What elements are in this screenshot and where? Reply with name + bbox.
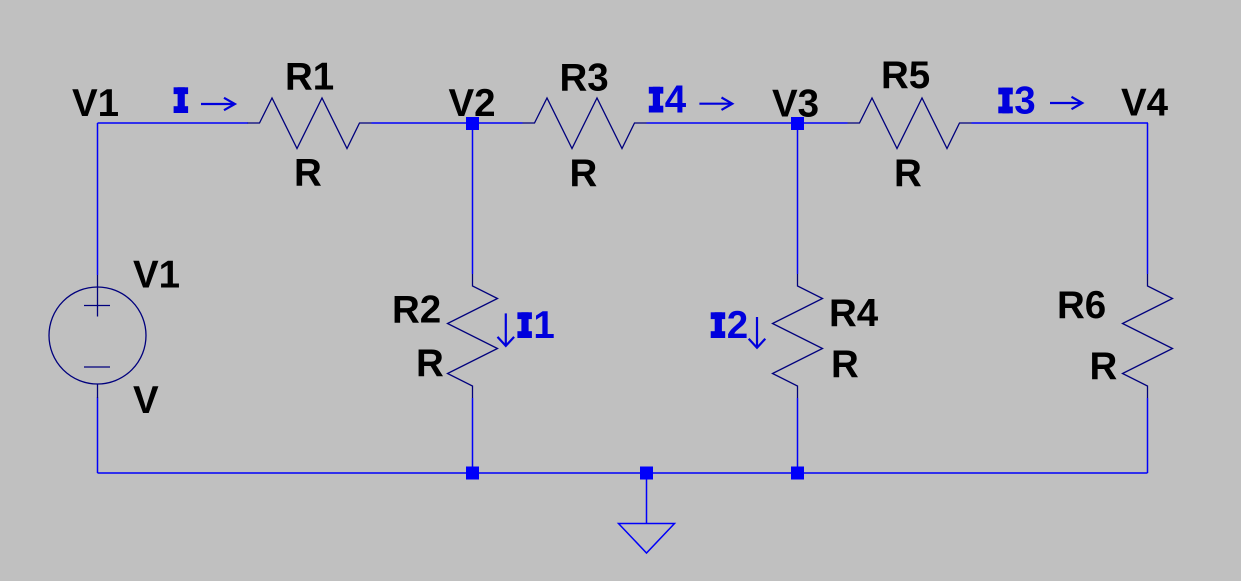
current label I4 with right arrow (649, 87, 664, 113)
wire left rail upper: V1 node down to source (97, 123, 99, 275)
svg-text:V: V (133, 379, 159, 422)
current label I1 with down arrow (498, 313, 515, 346)
resistor R5 (848, 98, 972, 149)
svg-text:R4: R4 (829, 292, 879, 335)
svg-text:R: R (894, 152, 922, 195)
wire V3 column lower: R4 to bottom rail (797, 398, 799, 473)
svg-text:V3: V3 (772, 82, 819, 125)
svg-text:R2: R2 (392, 289, 441, 332)
resistor R4 (773, 274, 823, 398)
svg-text:V1: V1 (133, 254, 180, 297)
wire right rail lower: R6 to bottom rail (1147, 398, 1149, 473)
svg-text:3: 3 (1014, 79, 1035, 122)
wire top rail: R3 to R5 through node V3 (647, 122, 848, 124)
resistor R1 (248, 98, 372, 149)
junction square bottom below R2 (466, 467, 479, 480)
current label I with right arrow (174, 87, 189, 113)
wire left rail lower: source to bottom rail (97, 398, 99, 474)
svg-text:2: 2 (727, 304, 748, 347)
svg-text:R6: R6 (1057, 284, 1106, 327)
junction square bottom below R4 (791, 467, 804, 480)
current label I3 with right arrow (998, 88, 1013, 114)
svg-text:R5: R5 (881, 54, 930, 97)
svg-text:R: R (831, 343, 859, 386)
ground (619, 480, 675, 554)
voltage source V1 (49, 275, 146, 398)
wire V2 column upper: node V2 to R2 (472, 123, 474, 274)
svg-text:4: 4 (665, 79, 687, 122)
resistor R2 (448, 274, 498, 398)
wire top rail: R5 to V4 corner (972, 122, 1149, 124)
junction square bottom at ground (640, 467, 653, 480)
resistor R3 (523, 98, 647, 149)
svg-text:R: R (416, 342, 444, 385)
wire right rail upper: V4 down to R6 (1147, 123, 1149, 274)
svg-text:1: 1 (533, 304, 554, 347)
wire top rail: R1 to R3 through node V2 (372, 122, 523, 124)
svg-text:R: R (1090, 345, 1118, 388)
current label I2 with down arrow (711, 312, 726, 338)
svg-text:V4: V4 (1121, 82, 1169, 125)
junction square node V2 (466, 117, 479, 130)
svg-text:R3: R3 (560, 57, 609, 100)
svg-text:R: R (570, 152, 598, 195)
svg-text:R1: R1 (285, 56, 334, 99)
wire bottom rail (98, 472, 1148, 474)
wire top rail: V1 corner to R1 (98, 122, 249, 124)
svg-text:R: R (294, 152, 322, 195)
svg-text:V1: V1 (72, 82, 119, 125)
resistor R6 (1123, 274, 1173, 398)
wire V3 column upper: node V3 to R4 (797, 123, 799, 274)
wire V2 column lower: R2 to bottom rail (472, 398, 474, 473)
svg-text:V2: V2 (449, 82, 496, 125)
junction square node V3 (791, 117, 804, 130)
